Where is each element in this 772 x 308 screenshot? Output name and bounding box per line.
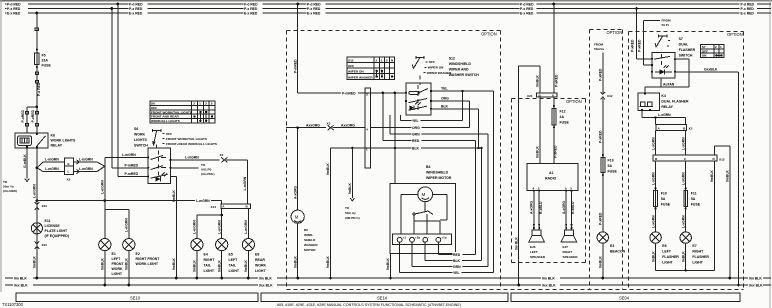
svg-text:X5: X5 <box>67 178 71 182</box>
washer motor B6 <box>291 210 318 252</box>
svg-text:E-x RED: E-x RED <box>129 12 143 16</box>
svg-text:P-xRED: P-xRED <box>638 39 642 52</box>
wire BLK to ground bus <box>326 148 332 280</box>
connector X21 <box>527 93 557 98</box>
wire Gm BLK S6 to ground bus <box>170 177 177 280</box>
svg-text:D: D <box>713 157 716 161</box>
svg-text:(3m PNL): (3m PNL) <box>201 172 215 176</box>
sheet title <box>277 303 461 307</box>
svg-text:OFF: OFF <box>429 60 435 64</box>
svg-text:2: 2 <box>193 102 195 106</box>
svg-text:9mBLK: 9mBLK <box>101 258 105 270</box>
wire P RED bus line2 to S6 <box>110 7 148 168</box>
wire L GRN to X14 <box>37 198 222 204</box>
svg-text:9mBLK: 9mBLK <box>193 260 197 272</box>
svg-text:P-mRED: P-mRED <box>125 172 139 176</box>
svg-text:RELAY: RELAY <box>51 144 63 148</box>
svg-text:GRN: GRN <box>412 132 420 136</box>
svg-text:RIGHT: RIGHT <box>563 250 573 254</box>
lamp E4 right tail light <box>191 239 215 280</box>
node TO 50mYa <box>3 180 17 193</box>
svg-text:S6: S6 <box>134 127 138 131</box>
wire YEL run <box>400 87 493 273</box>
svg-text:9m BLK: 9m BLK <box>514 237 518 250</box>
switch S6 label <box>134 127 148 148</box>
ground bus Gm BLK (bottom line 1) <box>5 277 771 279</box>
svg-text:B6: B6 <box>304 228 308 232</box>
svg-text:9mBLK: 9mBLK <box>244 260 248 272</box>
svg-text:X12: X12 <box>607 94 613 98</box>
wire L GRN relay to X2 bar <box>642 111 686 125</box>
svg-text:WINDSHIELD: WINDSHIELD <box>449 62 472 66</box>
ground bus labels <box>13 276 763 288</box>
svg-text:X2: X2 <box>220 153 224 157</box>
svg-text:F5: F5 <box>42 54 46 58</box>
svg-text:SPEAKER: SPEAKER <box>530 255 546 259</box>
switch S7 contact box <box>651 52 676 78</box>
svg-text:E3: E3 <box>610 244 614 248</box>
svg-text:BLK: BLK <box>412 146 420 150</box>
bus E4 RED (top line 3) <box>5 12 771 14</box>
wire P RED drop from bus line3 to fuse F5 <box>35 12 38 53</box>
svg-text:5: 5 <box>211 102 213 106</box>
svg-text:E1: E1 <box>112 252 116 256</box>
svg-text:LEFT: LEFT <box>530 250 538 254</box>
svg-text:FLASHER: FLASHER <box>662 255 679 259</box>
speaker E26 <box>529 230 546 259</box>
svg-text:L-xGRN: L-xGRN <box>681 137 685 150</box>
svg-text:L-mGRN: L-mGRN <box>125 218 129 232</box>
svg-text:9mBLK: 9mBLK <box>536 75 540 87</box>
svg-text:L-mGRN: L-mGRN <box>33 184 37 198</box>
switch S6 contact box <box>147 145 171 184</box>
wire A ORG washer feed <box>286 122 365 131</box>
svg-text:E2: E2 <box>136 252 140 256</box>
OPTION box (wiper/washer, middle) <box>287 31 501 290</box>
svg-text:L-mGRN: L-mGRN <box>79 158 93 162</box>
wire P RED fuse to relay split <box>27 65 41 109</box>
bus label group x244 <box>244 2 263 16</box>
svg-text:9m BLK: 9m BLK <box>14 277 27 281</box>
svg-text:M: M <box>295 215 299 220</box>
svg-text:BLK: BLK <box>441 105 449 109</box>
svg-text:B: B <box>246 205 249 209</box>
svg-text:S12: S12 <box>449 57 455 61</box>
svg-text:TO: TO <box>201 163 206 167</box>
svg-text:REAR: REAR <box>255 258 265 262</box>
svg-text:DUAL FLASHER: DUAL FLASHER <box>661 100 689 104</box>
svg-text:(3m RED): (3m RED) <box>3 189 17 193</box>
svg-text:FRONT+REAR WORK/ALL LIGHTS: FRONT+REAR WORK/ALL LIGHTS <box>166 142 217 146</box>
wire Au TAN switch to relay K4 <box>645 59 689 93</box>
svg-text:YEL: YEL <box>441 87 448 91</box>
wires radio to left speaker <box>530 191 543 230</box>
page border right edge <box>769 0 770 308</box>
svg-text:9mBLK: 9mBLK <box>293 256 297 268</box>
svg-text:2: 2 <box>538 187 540 191</box>
svg-text:AuTAN: AuTAN <box>663 83 675 87</box>
svg-text:E6: E6 <box>662 244 666 248</box>
svg-text:U01 P0: U01 P0 <box>201 168 212 172</box>
svg-text:FUSE: FUSE <box>661 203 671 207</box>
bus label group x520 <box>520 2 537 16</box>
svg-text:E-x RED: E-x RED <box>244 12 258 16</box>
svg-text:-: - <box>428 235 429 239</box>
svg-text:9mBLK: 9mBLK <box>33 256 37 268</box>
wiper motor B4 box <box>390 165 456 254</box>
svg-text:P-xRED: P-xRED <box>599 68 603 81</box>
svg-text:L-mGRN: L-mGRN <box>217 220 221 234</box>
motor connector strip <box>393 234 452 244</box>
svg-text:OFF: OFF <box>348 64 354 68</box>
svg-text:P-x RED: P-x RED <box>307 7 321 11</box>
svg-text:K6: K6 <box>51 134 56 138</box>
wire S6 out to X2 <box>170 156 219 160</box>
page border left edge <box>0 0 1 292</box>
SE14 zone box <box>261 293 508 301</box>
wires fuses to flasher lamps <box>651 206 685 232</box>
wire L GRN relay output down <box>33 148 39 279</box>
svg-text:9xx BLK: 9xx BLK <box>542 284 556 288</box>
switch S12 contact box <box>405 83 432 115</box>
svg-text:9nBLK: 9nBLK <box>348 183 352 194</box>
svg-text:+1a: +1a <box>441 235 447 239</box>
svg-text:P-xRED: P-xRED <box>21 110 25 123</box>
svg-text:N: N <box>391 59 394 63</box>
svg-text:1: 1 <box>720 45 722 49</box>
svg-text:9xx BLK: 9xx BLK <box>14 284 28 288</box>
svg-text:RELAY: RELAY <box>661 105 673 109</box>
svg-text:P-xRED: P-xRED <box>555 74 559 87</box>
svg-text:LEFT: LEFT <box>662 250 672 254</box>
svg-text:DUAL: DUAL <box>679 43 690 47</box>
svg-text:2: 2 <box>376 59 378 63</box>
svg-text:RED: RED <box>412 139 420 143</box>
svg-text:L-mGRN: L-mGRN <box>45 158 59 162</box>
svg-text:(IF EQUIPPED): (IF EQUIPPED) <box>45 234 70 238</box>
svg-text:9mBLK: 9mBLK <box>710 170 714 182</box>
svg-text:3: 3 <box>205 102 207 106</box>
svg-text:X13: X13 <box>719 158 725 162</box>
svg-text:B4: B4 <box>426 165 431 169</box>
svg-text:P-d RED: P-d RED <box>244 3 258 7</box>
SE10 zone box <box>16 293 258 301</box>
svg-text:X14: X14 <box>211 205 217 209</box>
svg-text:9mBLK: 9mBLK <box>599 256 603 268</box>
svg-text:A1: A1 <box>549 171 554 175</box>
svg-text:AxxORG: AxxORG <box>306 123 320 127</box>
bus P4 RED (top line 1) <box>5 3 771 5</box>
wire F12 to radio <box>536 97 558 163</box>
svg-text:+1: +1 <box>403 235 407 239</box>
svg-text:SE04: SE04 <box>619 296 630 301</box>
svg-text:E11: E11 <box>45 219 51 223</box>
switch S12 lever symbol <box>412 56 452 85</box>
connector X01 lower <box>35 241 48 249</box>
svg-text:OFF: OFF <box>166 132 172 136</box>
svg-text:A: A <box>658 126 661 130</box>
svg-text:BLK: BLK <box>453 259 461 263</box>
svg-text:WASHER: WASHER <box>304 243 318 247</box>
svg-text:F12: F12 <box>560 110 566 114</box>
node TO 50m Ay stub <box>345 148 360 220</box>
wires radio to right speaker <box>562 191 575 230</box>
svg-text:LEFT: LEFT <box>112 257 122 261</box>
bus label group x307 <box>307 2 326 16</box>
svg-text:X3: X3 <box>327 122 331 126</box>
svg-text:FLASHER: FLASHER <box>679 48 696 52</box>
svg-text:F10: F10 <box>661 192 667 196</box>
switch S6 state table <box>150 101 215 123</box>
svg-text:9m BLK: 9m BLK <box>259 277 272 281</box>
svg-text:FRONT AND REAR: FRONT AND REAR <box>151 115 179 119</box>
svg-text:P-d RED: P-d RED <box>307 3 321 7</box>
svg-text:OPTION: OPTION <box>607 30 623 35</box>
svg-text:F19: F19 <box>608 159 614 163</box>
svg-text:9mBLK: 9mBLK <box>326 256 330 268</box>
svg-text:SE10: SE10 <box>130 296 141 301</box>
svg-text:F11: F11 <box>691 192 697 196</box>
switch S7 label <box>679 37 696 58</box>
svg-text:P-xRED: P-xRED <box>599 212 603 225</box>
wire beacon ground <box>599 243 605 279</box>
svg-text:WORK: WORK <box>112 267 124 271</box>
TX number <box>2 302 24 307</box>
svg-text:9m BLK: 9m BLK <box>749 277 762 281</box>
svg-text:9m BLK: 9m BLK <box>542 277 555 281</box>
svg-text:L-mGRN: L-mGRN <box>101 180 105 194</box>
lamp E5 left tail light <box>216 239 240 280</box>
svg-text:3: 3 <box>366 93 368 97</box>
svg-text:P-d RED: P-d RED <box>741 3 755 7</box>
svg-text:1: 1 <box>199 102 201 106</box>
svg-text:50m Ya: 50m Ya <box>3 185 14 189</box>
svg-text:S6: S6 <box>151 102 155 106</box>
svg-text:P-mRED: P-mRED <box>342 91 356 95</box>
svg-text:LIGHTS: LIGHTS <box>134 138 147 142</box>
wires flasher lamp grounds to X13 pin D <box>651 161 714 271</box>
svg-text:P-d RED: P-d RED <box>520 3 534 7</box>
svg-text:9xBLK: 9xBLK <box>681 251 685 262</box>
svg-text:9xx BLK: 9xx BLK <box>259 284 273 288</box>
svg-text:9xBLK: 9xBLK <box>651 251 655 262</box>
svg-text:#05, #19E, #29E, #31E, #29E MA: #05, #19E, #29E, #31E, #29E MANUAL CONTR… <box>277 303 461 307</box>
svg-text:WIPER ON: WIPER ON <box>428 66 444 70</box>
svg-text:P-x RED: P-x RED <box>520 7 534 11</box>
svg-text:L-xGRN: L-xGRN <box>651 215 655 228</box>
wire X14 to tail lamps <box>193 208 249 238</box>
wire F19 to beacon <box>599 173 603 232</box>
svg-text:LIGHT: LIGHT <box>229 269 240 273</box>
svg-text:C: C <box>684 157 687 161</box>
wire L GRN merge to S6 and to front work lights <box>101 153 149 238</box>
svg-text:(3M PN C): (3M PN C) <box>345 216 360 220</box>
svg-text:9mBLK: 9mBLK <box>172 258 176 270</box>
svg-text:9mBLK: 9mBLK <box>125 258 129 270</box>
svg-text:LIGHT: LIGHT <box>204 269 215 273</box>
svg-text:3: 3 <box>570 187 572 191</box>
bus label group top-left <box>7 2 29 16</box>
fuse F11 <box>681 161 700 209</box>
svg-text:YEL: YEL <box>412 119 419 123</box>
lamp E3 beacon <box>597 232 626 254</box>
bus label group x130 <box>129 2 148 16</box>
svg-text:4: 4 <box>366 128 368 132</box>
svg-text:A-xORG: A-xORG <box>530 200 534 214</box>
svg-text:FROM: FROM <box>662 19 672 23</box>
svg-text:WORK: WORK <box>134 133 146 137</box>
wire BLK run <box>331 93 483 261</box>
svg-text:P-xRED: P-xRED <box>630 39 634 52</box>
switch S12 label <box>449 57 480 78</box>
svg-text:LIGHT: LIGHT <box>692 261 703 265</box>
svg-text:L-xGRN: L-xGRN <box>658 113 671 117</box>
page border top band <box>0 0 772 2</box>
switch S12 state table <box>347 57 395 79</box>
svg-text:5A: 5A <box>608 164 613 168</box>
svg-text:E-x RED: E-x RED <box>7 12 21 16</box>
svg-text:4A: 4A <box>560 115 565 119</box>
wire GRN run <box>390 115 488 267</box>
svg-text:X01: X01 <box>42 243 48 247</box>
fuse F12 <box>552 97 570 128</box>
svg-text:TAIL: TAIL <box>229 264 237 268</box>
svg-text:P-x RED: P-x RED <box>741 7 755 11</box>
svg-text:FUSE: FUSE <box>560 121 570 125</box>
svg-text:X2: X2 <box>689 127 693 131</box>
svg-text:L: L <box>68 169 70 173</box>
SE04 zone box <box>511 293 740 301</box>
connector bar X2b <box>656 124 693 130</box>
svg-text:OPTION: OPTION <box>481 32 497 37</box>
svg-text:FRONT WORK/TAIL LIGHTS: FRONT WORK/TAIL LIGHTS <box>166 137 207 141</box>
svg-text:WORK LIGHTS: WORK LIGHTS <box>51 139 77 143</box>
relay K6 <box>15 133 76 148</box>
connector X5 (relay to lights pair) <box>37 158 105 182</box>
svg-text:P-mRED: P-mRED <box>125 164 139 168</box>
svg-text:A: A <box>222 205 225 209</box>
wire L GRN X2 down to X14 <box>243 160 247 204</box>
svg-text:9xx BLK: 9xx BLK <box>749 284 763 288</box>
motor output wires to runs <box>400 242 494 275</box>
svg-text:SHIELD: SHIELD <box>304 238 316 242</box>
svg-text:A-xORG: A-xORG <box>293 185 297 199</box>
wire branch to E2 <box>105 210 129 239</box>
svg-text:P-x RED: P-x RED <box>7 7 21 11</box>
svg-text:E-x RED: E-x RED <box>520 12 534 16</box>
svg-text:5A: 5A <box>691 197 696 201</box>
svg-text:L-mGRN: L-mGRN <box>193 220 197 234</box>
svg-text:WIPER ON: WIPER ON <box>348 70 364 74</box>
svg-text:WIPER MOTOR: WIPER MOTOR <box>426 176 452 180</box>
svg-text:P-xRED: P-xRED <box>31 110 35 123</box>
svg-text:E-x RED: E-x RED <box>307 12 321 16</box>
svg-text:P-d RED: P-d RED <box>7 3 21 7</box>
svg-text:S7: S7 <box>679 37 683 41</box>
wire Gm BLK relay to TO stub <box>23 148 29 182</box>
wire P RED bus line2 to S7 <box>630 7 652 59</box>
lamp E11 license plate light <box>31 219 69 238</box>
svg-text:SE14: SE14 <box>377 296 388 301</box>
svg-text:L-mGRN: L-mGRN <box>244 220 248 234</box>
relay K4 dual flasher <box>638 92 689 111</box>
svg-text:LIGHT: LIGHT <box>662 261 673 265</box>
svg-text:ORG: ORG <box>441 97 449 101</box>
svg-text:+2a: +2a <box>415 235 421 239</box>
svg-text:9mBLK: 9mBLK <box>726 170 730 182</box>
svg-text:P-mRED: P-mRED <box>293 59 297 73</box>
node FROM 50 Pr <box>638 19 672 66</box>
svg-text:1: 1 <box>381 59 383 63</box>
svg-text:FRONT: FRONT <box>112 262 125 266</box>
connector X14 <box>211 204 251 209</box>
svg-text:L-xGRN: L-xGRN <box>651 137 655 150</box>
svg-text:OPTION: OPTION <box>727 32 743 37</box>
svg-text:E5: E5 <box>229 253 233 257</box>
svg-text:X01: X01 <box>42 204 48 208</box>
svg-text:S12: S12 <box>348 59 354 63</box>
switch S6 lever symbol <box>153 129 217 146</box>
svg-text:P-xRED: P-xRED <box>599 130 603 143</box>
ground bus Gx BLK (bottom line 2) <box>5 284 771 286</box>
svg-text:L-mGRN: L-mGRN <box>79 167 93 171</box>
svg-text:MOTOR: MOTOR <box>304 248 316 252</box>
svg-text:WORK: WORK <box>255 264 267 268</box>
svg-text:E7: E7 <box>692 244 696 248</box>
bus P3 RED (top line 2) <box>5 8 771 10</box>
speaker E27 <box>561 230 578 259</box>
svg-text:LEFT: LEFT <box>229 258 239 262</box>
svg-text:TX1107300: TX1107300 <box>2 302 24 307</box>
lamp E7 right flasher light <box>680 232 709 265</box>
svg-text:L-mGRN: L-mGRN <box>196 199 210 203</box>
svg-text:2: 2 <box>715 45 717 49</box>
svg-text:P-xRED: P-xRED <box>554 145 558 158</box>
fuse F5 <box>35 53 52 68</box>
switch S7 state table <box>701 45 724 58</box>
OPTION box (radio) <box>512 99 586 263</box>
connector X12 <box>601 92 613 99</box>
svg-text:L-xGRN: L-xGRN <box>681 172 685 185</box>
svg-text:ON: ON <box>702 54 707 58</box>
svg-text:LIGHT: LIGHT <box>255 269 266 273</box>
wires X2b to X13 <box>651 130 685 155</box>
svg-text:X21: X21 <box>527 94 533 98</box>
svg-text:50 Pr: 50 Pr <box>662 23 670 27</box>
svg-text:RIGHT FRONT: RIGHT FRONT <box>136 257 161 261</box>
svg-text:WIND-: WIND- <box>304 233 313 237</box>
shared dashed bottom of option boxes <box>287 289 744 291</box>
svg-text:31A: 31A <box>42 59 49 63</box>
svg-text:B: B <box>655 157 658 161</box>
wire A ORG to washer motor <box>293 126 299 210</box>
svg-text:TO: TO <box>345 206 350 210</box>
svg-text:FROM: FROM <box>594 43 604 47</box>
svg-text:B: B <box>683 126 686 130</box>
svg-text:LIGHT: LIGHT <box>112 272 123 276</box>
svg-text:FLASHER: FLASHER <box>692 255 709 259</box>
svg-text:E4: E4 <box>204 253 208 257</box>
svg-text:L-xGRN: L-xGRN <box>651 172 655 185</box>
svg-text:RED: RED <box>453 253 461 257</box>
wire Gm BLK radio ground loop <box>514 66 540 286</box>
wire P RED bus to S12 <box>293 3 406 96</box>
connector X13 <box>653 155 725 162</box>
lamp E2 right front work light <box>123 239 161 287</box>
wire washer motor ground <box>293 223 299 279</box>
svg-text:PLATE LIGHT: PLATE LIGHT <box>45 229 69 233</box>
svg-text:E27: E27 <box>563 245 569 249</box>
